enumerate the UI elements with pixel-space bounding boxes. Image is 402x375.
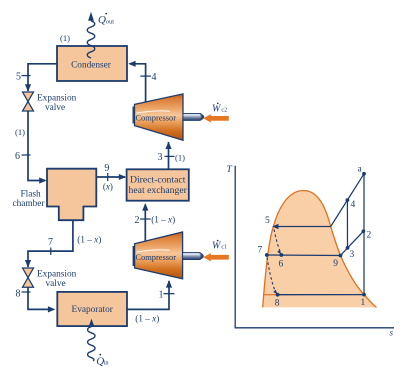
svg-text:(x): (x) (103, 181, 113, 191)
wire C2-top to condenser, node 4 (130, 64, 146, 103)
wire valve2 to evaporator (28, 287, 50, 309)
svg-text:out: out (106, 18, 114, 25)
svg-text:(1): (1) (175, 153, 185, 163)
svg-text:6: 6 (279, 260, 284, 270)
svg-text:Compressor: Compressor (136, 113, 177, 122)
svg-text:3: 3 (158, 152, 163, 163)
evaporator (57, 292, 127, 326)
svg-text:Q: Q (98, 14, 106, 26)
svg-text:2: 2 (135, 215, 140, 226)
line 9-3 (341, 248, 348, 256)
line 4-5 condensation (275, 226, 331, 228)
dashed 5-6 (274, 230, 280, 252)
line 1-2-a compression (363, 174, 365, 295)
svg-text:(1 – x): (1 – x) (77, 234, 101, 244)
svg-text:5: 5 (16, 72, 21, 83)
compressor C2 (135, 94, 184, 140)
wire flash chamber to heat exchanger, node 9 (96, 176, 125, 178)
svg-text:c2: c2 (221, 108, 227, 114)
arrowhead at 5 (272, 224, 278, 230)
svg-text:Evaporator: Evaporator (72, 305, 114, 315)
wire flash chamber bottom to valve 2, node 7 (28, 220, 73, 267)
svg-text:valve: valve (45, 103, 65, 113)
T axis (235, 166, 394, 328)
svg-text:2: 2 (367, 231, 372, 241)
svg-text:in: in (104, 359, 110, 366)
compressor C1 (135, 232, 183, 279)
svg-text:c1: c1 (221, 245, 227, 251)
Q_out squiggle (87, 21, 95, 58)
node 8 tick (22, 291, 31, 293)
svg-text:7: 7 (48, 237, 53, 248)
svg-text:Expansion: Expansion (37, 94, 77, 104)
W_c1 arrow (203, 253, 229, 261)
svg-text:3: 3 (350, 250, 355, 260)
node 6 tick (22, 154, 31, 156)
svg-text:1: 1 (159, 289, 164, 300)
svg-text:(1): (1) (15, 127, 25, 137)
direct-contact heat exchanger (127, 169, 189, 200)
wire evaporator to compressor C1, node 1 (127, 281, 169, 309)
wire condenser-left to expansion valve 1 (28, 64, 57, 91)
expansion valve V2 (23, 268, 34, 287)
svg-text:4: 4 (351, 200, 356, 210)
wire C1-top to hx bottom, node 2 (144, 205, 146, 242)
svg-text:(1 – x): (1 – x) (135, 313, 159, 323)
flow arrow down above valve (25, 84, 31, 92)
svg-text:valve: valve (46, 279, 66, 289)
svg-text:9: 9 (333, 259, 338, 269)
wire valve1 to flash chamber (28, 111, 45, 181)
svg-text:T: T (227, 165, 233, 175)
svg-text:9: 9 (104, 163, 109, 174)
flash chamber (47, 169, 96, 221)
wire hx-top to compressor C2, node 3 (168, 142, 170, 169)
line 3-4 compression (346, 200, 348, 248)
svg-text:Condenser: Condenser (71, 61, 112, 71)
flow arrow into flash chamber (39, 177, 46, 183)
svg-text:4: 4 (152, 72, 157, 83)
svg-text:(1): (1) (60, 33, 70, 43)
svg-text:(1 – x): (1 – x) (151, 215, 175, 225)
saturation dome outline (263, 191, 377, 308)
svg-text:1: 1 (361, 298, 366, 308)
shaft C2 (183, 113, 202, 120)
line isobar to a through 4 (331, 174, 364, 227)
W_c2 arrow (203, 114, 229, 122)
svg-text:heat exchanger: heat exchanger (129, 185, 188, 196)
line 8-1 evaporation (278, 294, 364, 296)
svg-text:s: s (390, 328, 394, 338)
state dots (265, 253, 269, 257)
svg-text:chamber: chamber (13, 199, 46, 209)
svg-text:Compressor: Compressor (136, 253, 177, 262)
svg-text:5: 5 (265, 216, 270, 226)
svg-text:Expansion: Expansion (37, 270, 77, 280)
dashed 7-8 (267, 258, 276, 292)
orange segment left of 8 (263, 294, 278, 296)
svg-text:Flash: Flash (21, 190, 41, 200)
Q_in squiggle (89, 319, 95, 327)
svg-text:8: 8 (16, 288, 21, 299)
svg-text:7: 7 (258, 246, 263, 256)
svg-text:6: 6 (15, 151, 20, 162)
saturation dome fill (263, 191, 377, 308)
svg-text:8: 8 (275, 298, 280, 308)
line 7-9 intermediate pressure (267, 254, 341, 257)
expansion valve V1 (23, 92, 34, 111)
flow arrow down above valve 2 (25, 260, 31, 268)
line 2-3 (348, 231, 364, 248)
shaft C1 (183, 253, 202, 260)
node 5 tick (22, 75, 31, 77)
condenser (57, 46, 127, 81)
